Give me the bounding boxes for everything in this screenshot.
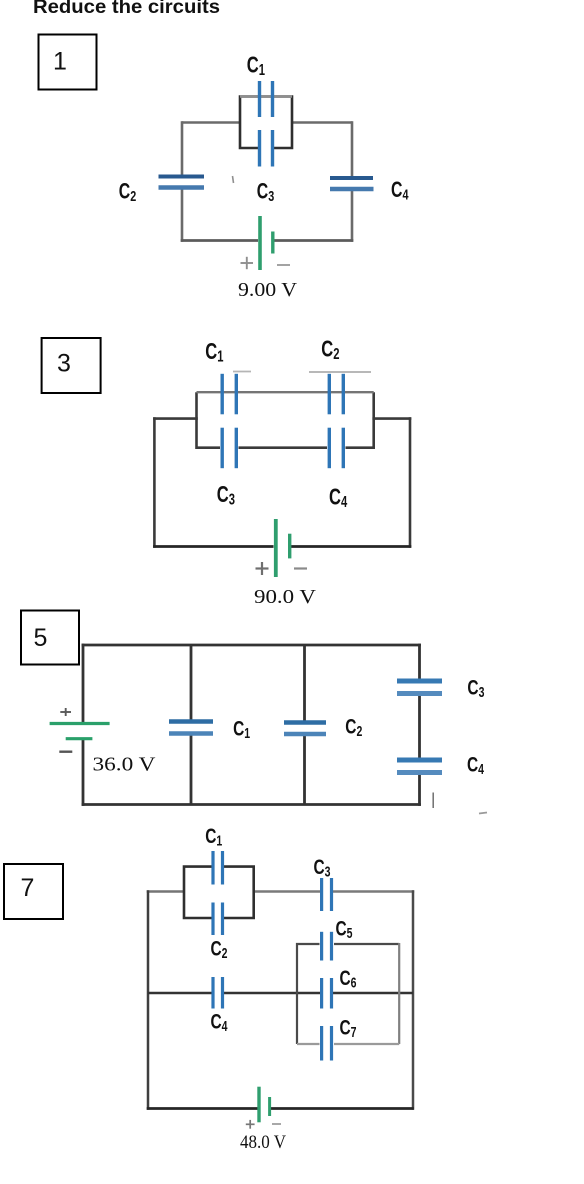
box c3 (sides and bottom with plate gaps) [197, 392, 374, 448]
svg-text:C2: C2 [211, 936, 228, 961]
wire: top right segment c1 [291, 121, 352, 124]
svg-text:36.0 V: 36.0 V [93, 754, 157, 776]
battery c3 short plate [288, 534, 291, 559]
svg-text:C2: C2 [345, 714, 362, 739]
wire: left edge lower c5 [82, 739, 85, 806]
battery c5 minus sign [59, 751, 72, 753]
wire: top right segment c7 [333, 890, 414, 893]
capacitor C2 plates (circuit 5) [284, 720, 326, 725]
wire: bottom right segment c1 [272, 239, 354, 242]
svg-text:C2: C2 [119, 180, 136, 204]
stray tick marks c5 [432, 793, 434, 809]
capacitor C1 plates (circuit 7) [211, 851, 214, 885]
capacitor C5 plates (circuit 7) [320, 932, 323, 961]
wire: bottom right segment c7 [271, 1107, 414, 1110]
wire: top middle segment c7 [253, 890, 321, 893]
svg-text:C3: C3 [314, 854, 331, 879]
svg-text:C5: C5 [336, 916, 353, 941]
battery c3 minus sign [294, 567, 307, 569]
capacitor C3 plates (circuit 5) [397, 679, 442, 684]
parallel box c1 top edge (gray) [240, 95, 292, 97]
svg-text:90.0 V: 90.0 V [254, 586, 317, 608]
capacitor C3 plates (circuit 7) [320, 878, 323, 911]
wire: right vertical lower c1 [351, 190, 354, 242]
wire: top edge c5 [82, 644, 421, 647]
battery c1 short plate [271, 232, 274, 254]
wire: left vertical lower c1 [181, 189, 184, 242]
capacitor C3 plates [258, 130, 261, 167]
capacitor C1 plates (circuit 5) [169, 719, 213, 724]
svg-text:9.00 V: 9.00 V [238, 279, 298, 301]
wire: bottom left segment c3 [153, 545, 273, 548]
capacitor C6 plates (circuit 7) [320, 978, 323, 1009]
problem number box 3 [42, 338, 101, 393]
svg-text:7: 7 [21, 874, 35, 902]
stray gray streak above C1 (circuit 3) [233, 371, 251, 373]
wire: right edge c7 [412, 890, 415, 1110]
svg-text:C4: C4 [211, 1009, 228, 1034]
svg-text:C6: C6 [340, 966, 357, 991]
battery c5 short plate [66, 737, 93, 740]
svg-text:C4: C4 [467, 752, 484, 777]
wire: left vertical c3 [153, 417, 156, 548]
capacitor C4 plates (circuit 3) [328, 428, 331, 469]
svg-text:1: 1 [53, 48, 67, 76]
battery c5 long plate [50, 722, 110, 725]
wire: left vertical upper c1 [181, 121, 184, 175]
wire: middle horizontal segments c7 [148, 992, 413, 994]
wire: right connector c3 [372, 417, 411, 420]
wire: right vertical upper c1 [351, 121, 354, 176]
stray mark left of C3 (circuit 1) [233, 176, 234, 183]
svg-text:3: 3 [57, 350, 71, 378]
battery c5 plus sign [60, 708, 71, 716]
battery c7 minus sign [272, 1123, 281, 1125]
svg-text:C7: C7 [340, 1015, 357, 1040]
capacitor C4 plates (circuit 5) [397, 758, 442, 763]
wire: left edge c7 [147, 890, 150, 1110]
svg-text:5: 5 [34, 624, 48, 652]
wire: top left segment c1 [182, 121, 241, 124]
svg-text:C1: C1 [233, 716, 250, 741]
battery c3 plus sign [256, 562, 269, 575]
problem number box 1 [39, 35, 97, 90]
inner box c7 (C5/C6/C7 loop) top and left [297, 944, 399, 1044]
svg-text:C1: C1 [247, 53, 266, 78]
battery c7 short plate [268, 1097, 271, 1116]
battery c1 long plate [258, 216, 262, 270]
svg-text:C4: C4 [391, 179, 409, 203]
battery c1 plus sign [241, 257, 254, 269]
svg-text:48.0 V: 48.0 V [240, 1132, 286, 1153]
wire: right vertical c3 [409, 417, 412, 548]
wire: left connector c3 [153, 417, 198, 420]
stray gray streak above C2 (circuit 3) [309, 371, 371, 373]
svg-text:C1: C1 [205, 339, 224, 364]
svg-text:C1: C1 [205, 824, 222, 849]
wire: branch 2 c5 [303, 645, 306, 805]
wire: top left segment c7 [147, 890, 185, 893]
problem number box 5 [21, 611, 79, 665]
capacitor C2 plates (circuit 7) [211, 903, 214, 936]
problem number box 7 [4, 864, 63, 919]
capacitor C4 plates (circuit 7) [211, 977, 214, 1009]
svg-text:C3: C3 [217, 482, 236, 507]
wire: bottom left segment c1 [181, 239, 258, 242]
wire: bottom left segment c7 [147, 1107, 258, 1110]
box c3 top edge [197, 391, 374, 393]
capacitor C4 plates [330, 176, 373, 180]
battery c7 long plate [257, 1087, 260, 1123]
svg-text:C4: C4 [329, 485, 348, 510]
capacitor C2 plates [159, 175, 205, 179]
svg-text:C3: C3 [467, 675, 484, 700]
svg-text:Reduce the circuits: Reduce the circuits [33, 0, 220, 18]
capacitor C2 plates (circuit 3) [328, 374, 331, 415]
battery c1 minus sign [277, 264, 290, 266]
parallel box c1 (sides and bottom) [240, 97, 292, 149]
battery c3 long plate [274, 519, 278, 577]
wire: left edge upper c5 [82, 644, 85, 724]
capacitor C1 plates (circuit 3) [220, 374, 223, 415]
wire: bottom edge c5 [82, 803, 421, 806]
battery c7 plus sign [246, 1120, 255, 1129]
wire: branch 1 c5 [190, 645, 193, 805]
svg-text:C3: C3 [257, 180, 274, 204]
capacitor C7 plates (circuit 7) [320, 1026, 323, 1061]
wire: bottom right segment c3 [288, 545, 411, 548]
capacitor C3 plates (circuit 3) [220, 428, 223, 469]
inner box c7 bottom edge (gray) [297, 1043, 399, 1045]
svg-text:C2: C2 [321, 337, 340, 362]
wire: right edge segments c5 [418, 644, 421, 806]
capacitor C1 plates [258, 81, 261, 117]
parallel box c7 (C1/C2) with plate gaps [184, 867, 254, 918]
